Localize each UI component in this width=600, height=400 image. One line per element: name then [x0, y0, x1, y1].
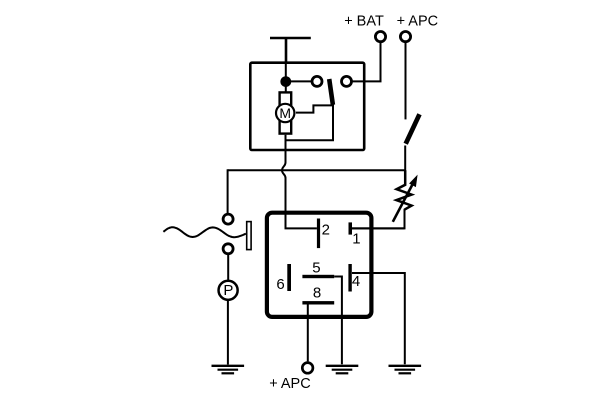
node junction dot — [280, 76, 291, 87]
motor M1 — [276, 104, 294, 122]
wire pin4 to ground — [352, 273, 405, 364]
ground G2 — [326, 366, 359, 374]
svg-text:P: P — [223, 282, 233, 299]
limit switch blade — [329, 79, 333, 105]
svg-text:+ BAT: + BAT — [344, 14, 384, 30]
wire resistor to pin1 — [352, 209, 405, 229]
ground G1 — [212, 366, 245, 374]
wire — [227, 169, 229, 213]
svg-text:5: 5 — [312, 259, 320, 276]
trigger contact upper — [223, 214, 233, 224]
terminal +APC bottom — [302, 363, 313, 374]
pin 2 — [317, 219, 320, 249]
svg-text:+ APC: + APC — [397, 14, 439, 30]
wire — [404, 146, 406, 172]
wire pin8 to +APC — [307, 305, 309, 362]
wire — [405, 43, 407, 120]
switch S1 blade — [406, 114, 420, 143]
svg-text:6: 6 — [276, 276, 284, 293]
terminal contact a — [312, 76, 322, 86]
svg-text:2: 2 — [322, 222, 330, 239]
wire — [286, 105, 334, 140]
variable resistor arrow — [393, 175, 418, 222]
wire with hop over bus — [282, 135, 317, 229]
ground G3 — [389, 366, 422, 374]
wire — [227, 254, 229, 280]
pin 5 — [302, 275, 334, 278]
wire pin1 to resistor — [352, 227, 405, 229]
wire — [227, 300, 229, 365]
svg-text:+ APC: + APC — [269, 376, 311, 392]
pin 4 — [348, 264, 351, 292]
wire horizontal bus — [228, 169, 406, 171]
svg-text:4: 4 — [352, 273, 360, 290]
svg-text:1: 1 — [352, 231, 360, 248]
variable resistor R1 — [396, 170, 411, 209]
svg-text:M: M — [279, 105, 291, 121]
terminal +BAT — [375, 31, 385, 41]
wire — [285, 62, 287, 92]
trigger contact lower — [223, 244, 233, 254]
wire — [352, 43, 381, 82]
pin 6 — [287, 264, 291, 291]
svg-text:8: 8 — [313, 285, 321, 302]
motor assembly box — [250, 63, 364, 150]
antenna element bar — [247, 222, 251, 250]
antenna mast A1 — [270, 38, 311, 63]
pressure sensor P1 — [219, 281, 238, 300]
pin 1 — [349, 222, 353, 234]
motor body — [280, 92, 292, 133]
terminal contact b — [342, 76, 352, 86]
wire pin5 to ground — [334, 277, 342, 365]
relay box — [267, 213, 372, 317]
signal squiggle — [163, 227, 246, 237]
wire — [286, 80, 311, 82]
pin 8 — [302, 301, 334, 304]
terminal +APC top — [400, 31, 410, 41]
